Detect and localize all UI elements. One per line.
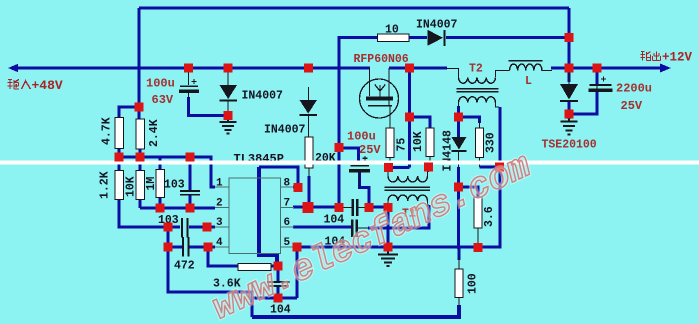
wire node row y=157 to pin1 corner [119, 157, 215, 187]
wire pin6 row chip to 104B cap [293, 226, 351, 229]
diode IN4007 a (input clamp) [220, 85, 238, 102]
svg-text:4.7K: 4.7K [101, 117, 114, 145]
node pin5 junction [293, 243, 302, 252]
wire 2200u bottom elbow [570, 92, 597, 114]
svg-text:100u: 100u [146, 77, 175, 91]
lead T1 secondary right [428, 201, 430, 205]
resistor 4.7K [115, 118, 124, 149]
lead 104B right [358, 227, 369, 229]
svg-text:IN4007: IN4007 [264, 124, 306, 137]
svg-text:63V: 63V [152, 93, 174, 107]
node pin7 at VCC column [335, 203, 344, 212]
wire pin5 to ground row y=247 [293, 246, 500, 249]
capacitor 2200u 25V electrolytic [589, 77, 613, 92]
lead T1 secondary left [387, 201, 389, 207]
lead IN4007b cathode to 20K [308, 116, 310, 137]
wire T2 secondary left column to IN4148 [457, 106, 460, 137]
lead TSE20100 top [568, 68, 570, 84]
lead 100u63V bottom + blue elbow to ground1 [188, 93, 190, 99]
node pin2 row at 103A [186, 204, 195, 213]
wire in-chip vertical from pin8 elbow down to 3.6K junction [259, 167, 277, 267]
svg-text:RFP60N06: RFP60N06 [354, 53, 409, 66]
wire top rail from feedback column to output column [139, 7, 569, 10]
node input rail at IN4007b [304, 64, 313, 73]
ground 3 (output) [561, 115, 578, 135]
wire pin7 row from stub to VCC column [293, 206, 340, 209]
wire 100u25V cap bottom elbow to ground junction [360, 172, 370, 208]
node ground net at 104A right [365, 203, 374, 212]
node mosfet gate row [405, 113, 414, 122]
wire mosfet right rail to T2 [389, 67, 447, 70]
svg-text:472: 472 [174, 260, 195, 273]
lead IN4007b anode stub [308, 87, 310, 100]
wire snubber diode to output column [446, 36, 569, 39]
capacitor 104 C horizontal plates [267, 282, 290, 286]
lead 104A right [358, 207, 369, 209]
node feedback divider top [135, 103, 144, 112]
svg-text:3.6: 3.6 [483, 206, 496, 227]
wire column x=168 down and bottom run to x=252 [168, 247, 252, 317]
resistor 330 [476, 128, 484, 158]
transistor RFP60N06 mosfet [360, 79, 399, 118]
resistor 3.6 [474, 197, 482, 228]
label 输入+48V [8, 78, 63, 93]
capacitor 100u 25V electrolytic [349, 156, 370, 173]
resistor 1M [156, 170, 165, 198]
wire 104 bottom junction row y=298 [252, 297, 297, 300]
wire mosfet drain gate column x=409.5 [408, 68, 411, 168]
svg-text:2: 2 [216, 198, 223, 210]
wire source node row to corner [389, 166, 410, 169]
wire 104C bottom lead [277, 287, 280, 298]
resistor 100 [455, 269, 463, 298]
lead T2 secondary left [458, 102, 460, 107]
node pin3 row right of 103B [203, 223, 212, 232]
svg-text:+12V: +12V [662, 51, 693, 65]
lead T1 primary left [387, 168, 389, 176]
wire input +48V rail y=68 [12, 67, 370, 70]
wire 100 resistor top stub [458, 247, 461, 260]
svg-text:4: 4 [216, 237, 223, 249]
wire bottom rail y=317 [252, 305, 459, 317]
capacitor 472 vertical plates [183, 237, 189, 257]
lead T2 secondary right [496, 102, 500, 107]
wire output column x=569 [568, 8, 571, 82]
wire 2200u top lead [596, 68, 599, 84]
node 330 bottom right loop [495, 163, 504, 172]
svg-text:IN4007: IN4007 [416, 19, 458, 32]
wire junction(139,107) down to 2.4K top [138, 107, 141, 119]
lead T1 primary right [427, 168, 429, 176]
svg-text:104: 104 [324, 214, 345, 227]
lead 100 top [458, 258, 460, 269]
input arrowhead [8, 64, 18, 72]
wire 20K bottom column [308, 176, 311, 207]
svg-text:10K: 10K [125, 176, 138, 197]
resistor 75 [386, 128, 394, 158]
wire 10 ohm to diode [409, 36, 427, 39]
lead 10K right bottom [429, 156, 431, 167]
node input rail at IN4007a [224, 64, 233, 73]
lead T2 primary left [446, 69, 459, 79]
output arrowhead [660, 64, 671, 73]
lead 2200u plus lead [596, 86, 598, 89]
wire 4.7K bottom to node row y=157 [118, 148, 121, 157]
lead L right [542, 70, 553, 72]
inductor L [509, 61, 543, 71]
wire 103 cap B right lead to pin3 [189, 226, 215, 229]
wire 1.2K top lead [118, 157, 121, 171]
capacitor 103 B vertical plates [182, 218, 188, 238]
node T1 ground column bottom [384, 243, 393, 252]
node ground row at 3.6 bottom [474, 243, 483, 252]
wire T1 ground column x=388 [387, 207, 390, 249]
wire column x=168 pin3 row to pin4 row [167, 227, 170, 248]
lead IN4007a cathode to ground1 [227, 101, 229, 116]
node input rail at 100u63V [184, 64, 193, 73]
wire pin8 stub blue [293, 186, 299, 189]
lead 20K bottom [308, 168, 310, 177]
svg-text:100: 100 [467, 273, 480, 294]
svg-text:1.2K: 1.2K [99, 171, 112, 199]
node source row at 75 / T1 primary left [384, 163, 393, 172]
ground 2 (T1 / control) [378, 248, 398, 266]
wire IN4148 junction to 3.6 resistor top [459, 187, 479, 197]
wire 1M top lead [159, 157, 162, 170]
svg-text:IN4148: IN4148 [442, 130, 455, 172]
lead IN4007a anode [227, 68, 229, 85]
node IN4148 cathode at 3.6 top [454, 183, 463, 192]
lead mosfet channel top right [388, 68, 390, 105]
svg-text:6: 6 [284, 217, 291, 229]
op-amp U1 TL3845P chip body [215, 178, 294, 254]
wire 100u63V bottom elbow to ground1 junction [189, 97, 229, 116]
lead 3.6 bottom [477, 228, 479, 248]
svg-text:3: 3 [216, 217, 223, 229]
wire pin5 column down to 104C junction [296, 247, 299, 298]
wire VCC column x=339 snubber to pin7 row [338, 36, 341, 208]
node output at 2200u [593, 64, 602, 73]
wire 103 cap A bottom lead [189, 195, 192, 208]
node row157 at 103A [186, 153, 195, 162]
node ground net at T1 secondary left [384, 203, 393, 212]
lead T2 primary right to L [496, 71, 510, 78]
node rail at mosfet column [405, 64, 414, 73]
wire 104B right to T1 secondary right elbow [368, 205, 429, 228]
resistor 1.2K [115, 171, 124, 200]
node VCC at 100u25V [335, 143, 344, 152]
wire ground row corner up right side loop x=500 [499, 107, 502, 249]
label 输出+12V [641, 51, 693, 65]
resistor 10 snubber [378, 34, 410, 42]
wire 104C top lead [277, 266, 280, 281]
diode IN4148 [452, 137, 467, 152]
transformer T1 [385, 176, 431, 201]
resistor 10K left [136, 171, 145, 200]
svg-text:TSE20100: TSE20100 [542, 139, 597, 152]
wire 103 cap A top lead [189, 157, 192, 190]
lead 330 bottom [479, 157, 481, 167]
wire 330 bottom to right loop junction [480, 166, 501, 169]
wire 100u25V cap top elbow [339, 148, 359, 163]
wire pin4 row left of 472 [168, 246, 182, 249]
node 104C bottom junction [274, 294, 283, 303]
resistor 2.4K [136, 119, 145, 149]
node 3.6K right junction [274, 262, 283, 271]
svg-text:100u: 100u [347, 130, 376, 144]
lead 330 top [479, 121, 481, 128]
node pin3 row at x168 [164, 223, 173, 232]
node pin4 row right of 472 [204, 243, 213, 252]
node T2 secondary left at 330 elbow [454, 113, 463, 122]
svg-text:5: 5 [284, 237, 291, 249]
svg-text:75: 75 [396, 138, 409, 152]
wire TSE20100 cathode to ground [568, 101, 571, 119]
diode IN4007 b (to 20K) [300, 100, 318, 116]
lead mosfet source down to 75 [389, 106, 391, 128]
wire 2.4K bottom / 10K top column [139, 148, 142, 170]
lead mosfet drain [369, 68, 371, 96]
wire 10K bottom lead [139, 199, 142, 208]
wire 1.2K bottom to pin3 row [119, 199, 180, 227]
lead 10K right to T1 [428, 167, 430, 172]
wire pin2 row y=208 [140, 207, 215, 210]
wire 3.6K right lead to junction [271, 266, 278, 268]
svg-text:8: 8 [284, 178, 291, 190]
node T1 primary right at 10K [424, 163, 433, 172]
diode TSE20100 [560, 84, 578, 102]
wire T2 sec left junction to 330 top elbow [459, 117, 480, 123]
svg-text:2.4K: 2.4K [148, 119, 161, 147]
svg-text:IN4007: IN4007 [242, 90, 284, 103]
svg-text:1: 1 [216, 178, 223, 190]
svg-text:L: L [525, 75, 532, 88]
lead 75 bottom [389, 157, 391, 167]
transformer T2 [457, 78, 499, 103]
lead 100 bottom [458, 297, 460, 306]
svg-text:7: 7 [284, 198, 291, 210]
capacitor 100u 63V electrolytic [179, 79, 199, 93]
svg-text:10K: 10K [412, 131, 425, 152]
wire junction(409.5,117) to 10K right top [410, 117, 431, 128]
svg-text:10: 10 [385, 24, 399, 37]
svg-text:330: 330 [485, 132, 498, 153]
wire 472 right to pin4 stub [189, 246, 215, 249]
lead 100u63V top [188, 68, 190, 85]
resistor 20K [305, 137, 313, 168]
wire pin4 junction elbow down to 3.6K resistor [208, 247, 238, 266]
node snubber at output column [565, 33, 574, 42]
node pin4 row at x168 [164, 243, 173, 252]
svg-text:25V: 25V [359, 143, 381, 157]
node row157 at 4.7K/1.2K [115, 153, 124, 162]
wire elbow junction(139,107) to 4.7K top [119, 107, 139, 118]
resistor 10K right [426, 128, 434, 157]
node pin2 row at 1M [156, 204, 165, 213]
node pin8 junction [294, 183, 303, 192]
wire pin8 elbow over chip [259, 167, 298, 188]
node output L junction [565, 64, 574, 73]
white scan band artifact [0, 160, 699, 164]
svg-text:103: 103 [164, 179, 185, 192]
svg-text:T2: T2 [469, 63, 483, 76]
capacitor 104 B vertical plates [352, 220, 356, 238]
svg-text:2200u: 2200u [616, 82, 652, 96]
svg-text:+48V: +48V [32, 78, 63, 93]
svg-text:1M: 1M [145, 177, 158, 191]
resistor 3.6K horizontal [238, 264, 271, 271]
lead 100u25V bottom [359, 172, 361, 188]
lead 104A left [340, 207, 352, 209]
wire snubber top run to 10 ohm resistor [339, 36, 377, 39]
node row157 at 2.4K/10K [136, 153, 145, 162]
wire 1M bottom lead [159, 197, 162, 208]
wire feedback vertical x=139 [138, 8, 141, 108]
capacitor 103 A horizontal plates [180, 191, 200, 195]
ground 1 (input filter) [220, 116, 237, 134]
node output ground elbow [565, 110, 574, 119]
wire output rail to arrow [569, 67, 662, 70]
wire 104A right lead junction to ground net [368, 206, 389, 209]
wire IN4148 cathode column down to ground row [457, 167, 460, 249]
svg-text:25V: 25V [621, 99, 643, 113]
lead IN4148 cathode [458, 152, 460, 168]
diode IN4007 c (snubber, right pointing) [428, 30, 446, 46]
capacitor 104 A vertical plates [353, 199, 357, 216]
node pin7 at 20K [303, 202, 314, 213]
wire L right lead to output junction [551, 67, 569, 70]
node ground1 elbow [224, 111, 233, 120]
